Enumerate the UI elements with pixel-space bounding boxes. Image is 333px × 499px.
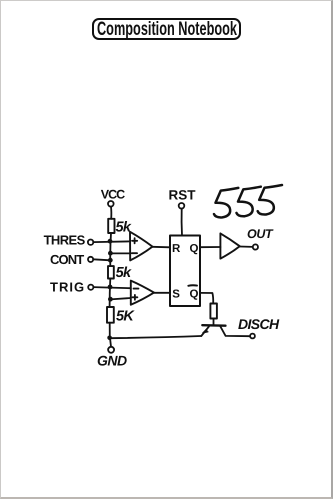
terminal GND xyxy=(108,347,114,353)
resistor R1 xyxy=(108,219,114,233)
transistor Q1 emitter leg xyxy=(201,326,209,336)
svg-text:5k: 5k xyxy=(116,265,132,281)
label 555 digit 1 xyxy=(214,188,238,218)
svg-text:5K: 5K xyxy=(116,308,135,324)
title box: Composition Notebook xyxy=(92,18,241,40)
transistor Q1 collector leg xyxy=(220,326,250,336)
wire rail R2 to R3 xyxy=(109,279,112,308)
wire rail R1 to R2 xyxy=(109,233,112,266)
terminal DISCH xyxy=(250,334,255,339)
wire TRIG to comp2 - input xyxy=(93,287,130,288)
node TRIG junction xyxy=(108,285,113,290)
wire comp1 - input xyxy=(110,252,130,254)
node comp1 - input junction xyxy=(108,251,113,256)
node CONT junction xyxy=(108,258,113,263)
node GND rail junction xyxy=(107,336,112,341)
svg-text:Q: Q xyxy=(190,243,199,255)
resistor R3 xyxy=(107,307,114,323)
svg-text:R: R xyxy=(172,243,181,255)
svg-text:DISCH: DISCH xyxy=(238,316,280,332)
op-amp comparator 2 xyxy=(131,281,154,305)
wire VCC to R1 xyxy=(110,207,112,219)
terminal CONT xyxy=(88,257,93,262)
node comp2 + junction xyxy=(108,297,113,302)
label - (comp1) xyxy=(132,252,137,254)
wire GND junction to terminal xyxy=(110,338,111,347)
terminal OUT xyxy=(253,244,258,249)
label 555 digit 3 xyxy=(258,185,282,215)
op-amp output buffer xyxy=(220,233,239,258)
resistor R4 (base) xyxy=(210,304,217,319)
wire THRES to comp1 + input xyxy=(93,240,130,243)
terminal VCC xyxy=(108,201,114,207)
wire R4 to base xyxy=(213,319,215,326)
svg-text:Q: Q xyxy=(190,288,199,300)
svg-text:VCC: VCC xyxy=(101,187,125,201)
overline of Q-bar xyxy=(188,284,197,287)
label + (comp1) xyxy=(132,238,137,243)
wire bottom rail to transistor emitter xyxy=(110,336,201,338)
terminal TRIG xyxy=(88,285,93,290)
op-amp comparator 1 xyxy=(130,232,153,261)
wire comp2 + input xyxy=(110,298,130,299)
label - (comp2) xyxy=(134,288,139,290)
wire rail R3 to GND node xyxy=(109,323,111,338)
svg-text:RST: RST xyxy=(169,187,197,202)
svg-text:S: S xyxy=(172,288,180,300)
wire comp1 out to R input xyxy=(153,246,171,249)
node THRES/rail junction xyxy=(108,239,113,244)
svg-text:CONT: CONT xyxy=(50,252,84,267)
flip-flop U1 box xyxy=(170,236,200,307)
wire comp2 out to S input xyxy=(154,292,170,294)
svg-text:THRES: THRES xyxy=(44,233,86,248)
svg-text:OUT: OUT xyxy=(247,227,274,241)
svg-text:GND: GND xyxy=(97,353,127,369)
wire buffer to OUT xyxy=(240,246,253,248)
transistor Q1 base bar xyxy=(202,324,225,327)
wire CONT to rail xyxy=(93,259,110,260)
terminal THRES xyxy=(88,240,93,245)
svg-text:TRIG: TRIG xyxy=(50,279,85,294)
label + (comp2) xyxy=(132,295,137,300)
resistor R2 xyxy=(108,266,114,278)
terminal RST xyxy=(179,203,185,209)
wire Q-bar out, right then down xyxy=(200,293,213,304)
transistor Q1 emitter arrow xyxy=(203,329,208,333)
wire RST to flip-flop xyxy=(181,209,183,236)
label 555 digit 2 xyxy=(237,187,261,217)
wire Q out to buffer xyxy=(200,246,220,248)
